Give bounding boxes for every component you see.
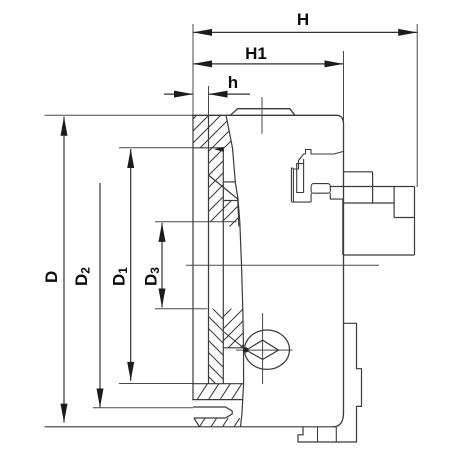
backplate flange bottom (upper half) xyxy=(344,254,415,256)
bottom rim top edge xyxy=(192,383,243,385)
pilot stem xyxy=(310,193,312,202)
arrow D1 down xyxy=(127,362,134,381)
dimension H1 line xyxy=(193,63,344,65)
third vertical line xyxy=(222,148,224,384)
extension line D2 bottom xyxy=(93,407,193,409)
svg-text:D3: D3 xyxy=(142,267,163,286)
pinion circle xyxy=(245,330,290,369)
bottom rim bottom edge xyxy=(192,399,242,401)
arrow H right xyxy=(398,29,417,36)
body rear edge xyxy=(343,124,345,413)
arrow h left (outside, pointing right) xyxy=(174,91,193,98)
body top edge right of jaw + corner xyxy=(337,115,344,124)
bolt base line xyxy=(291,201,311,203)
svg-text:H1: H1 xyxy=(245,44,267,63)
bottom rim hatch xyxy=(197,384,242,400)
dimension h lines xyxy=(164,93,193,95)
svg-text:H: H xyxy=(297,10,309,29)
jaw slot diagonal edge xyxy=(209,176,238,200)
body face second line xyxy=(208,115,210,383)
jaw profile xyxy=(230,109,295,116)
hatch zone C2 (below jaw slot) xyxy=(223,201,239,227)
arrow D down xyxy=(61,404,68,423)
spigot left edge xyxy=(393,187,395,218)
junction blob xyxy=(243,347,248,352)
body bottom right corner xyxy=(333,413,344,427)
tab internal vertical 1 xyxy=(317,427,319,442)
dimension D line xyxy=(63,117,65,423)
extension line x=193 (H/H1/h left, above body) xyxy=(192,24,194,115)
pinion crosshair vertical xyxy=(262,313,264,384)
extension line D bottom / part bottom edge xyxy=(45,426,333,428)
washer xyxy=(291,168,293,201)
counterbore step xyxy=(330,193,343,255)
backplate step A bottom xyxy=(344,202,395,204)
bolt pilot rounded rect xyxy=(311,184,330,194)
backplate step A top xyxy=(344,171,373,173)
pinion crosshair horizontal xyxy=(236,349,293,351)
tab internal vertical 2 xyxy=(335,427,337,442)
flange ring top edge xyxy=(194,417,226,419)
arrow H left xyxy=(193,29,212,36)
jaw slot bottom xyxy=(223,181,235,183)
pinion square socket xyxy=(246,340,278,359)
extension line D1 bottom xyxy=(119,383,193,385)
backplate step A right xyxy=(372,172,374,203)
flange ring hatch xyxy=(200,418,240,427)
slot lower ledge xyxy=(223,200,237,202)
jaw centre tick xyxy=(261,97,263,134)
extension line x=415 (H right) xyxy=(416,24,418,187)
step out xyxy=(298,323,362,442)
hatch zone C (guideway column section) xyxy=(209,148,224,222)
arrow D2 down xyxy=(97,389,104,408)
arrow D up xyxy=(61,117,68,136)
svg-text:D1: D1 xyxy=(110,267,131,286)
extension line x=343.5 (H1 right) xyxy=(343,51,345,124)
guideway top line xyxy=(193,147,223,149)
extension line D3 bottom xyxy=(155,308,207,310)
extension line D1 top xyxy=(119,147,193,149)
hatch zone G (pinion boss section) xyxy=(223,309,243,348)
slot inner edge xyxy=(238,199,239,227)
flange ring left slant xyxy=(194,418,200,427)
cone front edge xyxy=(226,115,244,427)
bracket3 xyxy=(303,159,305,193)
backplate hub top xyxy=(330,186,414,188)
main centerline xyxy=(186,264,379,266)
dimension H line xyxy=(193,31,417,33)
arrow D3 up xyxy=(159,223,166,242)
bolt outline xyxy=(293,150,343,202)
hatch zone F (bottom inner strip) xyxy=(209,309,224,384)
arrow D1 up xyxy=(127,149,134,168)
arrow H1 right xyxy=(325,60,344,67)
dimension D2 line xyxy=(99,183,101,408)
pinion slot diagonal edge xyxy=(224,332,244,348)
extension line D top xyxy=(45,114,192,116)
rear boss edge with nose xyxy=(193,407,232,418)
svg-text:D: D xyxy=(42,271,61,283)
body top edge xyxy=(192,114,337,116)
body front face xyxy=(192,115,194,400)
backplate rear face xyxy=(414,187,416,256)
bracket2 xyxy=(297,164,304,193)
hatch zone A (top rim section) xyxy=(193,115,233,148)
arrow H1 left xyxy=(193,60,212,67)
extension line x=208.5 top xyxy=(208,86,210,115)
spigot bottom xyxy=(394,217,414,219)
extension line D3 top xyxy=(155,221,237,223)
guideway wedge arrow xyxy=(214,147,224,152)
pinion notch top xyxy=(223,347,243,349)
arrow D3 down xyxy=(159,289,166,308)
svg-text:h: h xyxy=(228,73,238,92)
svg-text:D2: D2 xyxy=(72,267,93,286)
arrow h right (outside, pointing left) xyxy=(209,91,228,98)
dimension D1 line xyxy=(130,149,132,381)
dimension D3 line xyxy=(161,223,163,308)
